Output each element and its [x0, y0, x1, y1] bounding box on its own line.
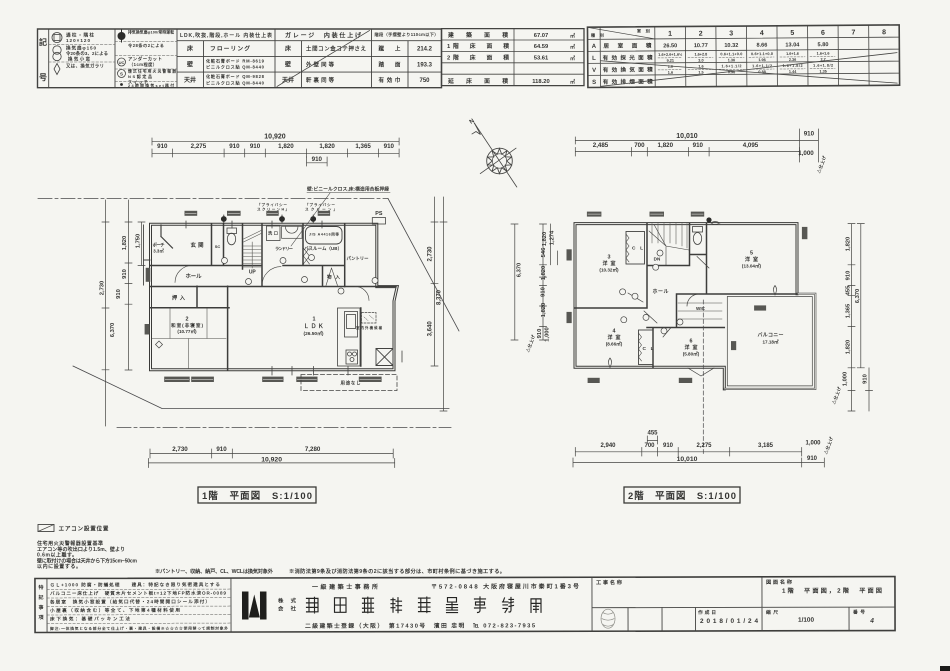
svg-text:1,365: 1,365	[355, 143, 371, 150]
svg-text:〒572-0848 大阪府寝屋川市秦町1番3号: 〒572-0848 大阪府寝屋川市秦町1番3号	[431, 582, 579, 590]
svg-text:2: 2	[447, 56, 450, 62]
svg-text:4: 4	[869, 618, 874, 625]
svg-text:1.6+2.6+1.6½: 1.6+2.6+1.6½	[658, 53, 682, 57]
1F bottom dims	[148, 449, 394, 468]
svg-text:1.44: 1.44	[789, 70, 797, 74]
svg-text:750: 750	[419, 78, 430, 84]
svg-text:項: 項	[39, 614, 45, 621]
svg-text:6,370: 6,370	[110, 323, 116, 338]
svg-text:化粧石膏ボード QM-9828: 化粧石膏ボード QM-9828	[206, 73, 265, 80]
svg-text:エアコン設置位置: エアコン設置位置	[59, 525, 109, 533]
svg-text:会社: 会社	[278, 604, 297, 612]
2F bottom dims	[573, 436, 824, 467]
svg-text:910: 910	[693, 142, 704, 149]
svg-text:1階 平面図，2階 平面図: 1階 平面図，2階 平面図	[782, 587, 882, 595]
svg-text:546: 546	[541, 247, 547, 257]
2F balcony parapet	[724, 294, 815, 389]
svg-text:2018/01/24: 2018/01/24	[700, 618, 758, 625]
svg-text:53.61: 53.61	[534, 56, 549, 62]
stamp scribble	[601, 609, 615, 628]
svg-text:事: 事	[38, 604, 43, 611]
svg-text:洋室: 洋室	[745, 256, 758, 263]
svg-text:5.80: 5.80	[818, 42, 829, 48]
1F toilet	[227, 233, 235, 245]
svg-text:※消防法第9条及び消防法第9条の2に該当する部分は、市町村条: ※消防法第9条及び消防法第9条の2に該当する部分は、市町村条例に基づき施工する。	[289, 567, 505, 575]
company name 濱田設計測量事務所 as dense glyph marks	[306, 597, 541, 613]
LEGEND-TABLE-GRID	[38, 29, 442, 88]
svg-text:3,640: 3,640	[427, 321, 433, 337]
svg-text:特: 特	[38, 584, 43, 591]
svg-text:㎡: ㎡	[570, 55, 575, 62]
svg-text:ビニルクロス貼 QM-8440: ビニルクロス貼 QM-8440	[206, 64, 265, 71]
svg-text:7,280: 7,280	[305, 446, 321, 453]
svg-text:床: 床	[187, 45, 194, 53]
svg-text:洋室: 洋室	[608, 334, 621, 341]
svg-text:土間コン金コテ押さえ: 土間コン金コテ押さえ	[306, 45, 367, 53]
page corner mark	[940, 666, 950, 671]
svg-text:910: 910	[663, 443, 674, 449]
1F entry corner + door leaf	[161, 225, 173, 248]
svg-text:2: 2	[699, 31, 703, 38]
svg-text:1,820: 1,820	[542, 232, 548, 247]
symbol col2: smoke alarm	[118, 70, 126, 78]
svg-text:ＬＤＫ: ＬＤＫ	[304, 322, 324, 330]
1F window left wall	[145, 324, 150, 335]
svg-text:5: 5	[750, 251, 753, 257]
2F windows bottom	[588, 305, 767, 383]
1F PS shaft	[372, 218, 385, 224]
svg-text:4: 4	[760, 30, 764, 37]
svg-text:洗口: 洗口	[268, 230, 278, 237]
svg-text:1,274: 1,274	[550, 230, 556, 245]
1F left-side dims	[102, 200, 145, 426]
svg-text:1.6: 1.6	[668, 65, 673, 69]
svg-text:13.04: 13.04	[785, 42, 800, 48]
1F refrigerator cross box	[376, 349, 393, 366]
svg-text:910: 910	[846, 271, 852, 281]
2F left dims	[511, 224, 558, 340]
svg-text:A: A	[592, 44, 597, 50]
svg-text:910: 910	[116, 289, 122, 299]
svg-text:小屋裏（収納含む）等全て、下地第4種材料使用: 小屋裏（収納含む）等全て、下地第4種材料使用	[50, 607, 180, 614]
ROOM-AREA-TABLE	[587, 25, 899, 88]
compass north symbol	[472, 123, 517, 187]
svg-text:17.18㎡: 17.18㎡	[762, 339, 778, 345]
svg-text:910: 910	[807, 456, 818, 462]
svg-text:㎡: ㎡	[570, 79, 575, 86]
svg-text:縮尺: 縮尺	[766, 609, 778, 616]
svg-text:1,820: 1,820	[658, 142, 674, 149]
svg-text:1,820: 1,820	[122, 236, 128, 251]
svg-text:1: 1	[313, 317, 316, 323]
svg-text:以内に設置する。: 以内に設置する。	[37, 563, 81, 570]
svg-text:番号: 番号	[852, 609, 865, 616]
symbol col2: undercut	[118, 58, 126, 66]
1F sub dim 910	[307, 157, 328, 166]
svg-text:「プライバシー: 「プライバシー	[257, 202, 287, 207]
svg-text:DN: DN	[654, 257, 661, 262]
svg-text:(26.50㎡): (26.50㎡)	[304, 330, 324, 337]
svg-text:1,750: 1,750	[136, 234, 142, 249]
svg-text:ポーチ: ポーチ	[153, 242, 166, 249]
1F circled fixture symbols	[222, 255, 379, 295]
svg-text:910: 910	[384, 143, 395, 150]
1F segment dim line	[152, 149, 399, 157]
svg-text:株式: 株式	[278, 596, 297, 604]
svg-text:△仕上げ: △仕上げ	[830, 385, 843, 406]
svg-text:外壁同等: 外壁同等	[306, 60, 335, 68]
2F interior walls	[575, 224, 797, 368]
svg-text:2,730: 2,730	[172, 446, 188, 453]
2F plan title box	[624, 487, 740, 503]
2F right dims	[848, 224, 873, 411]
svg-text:△仕上げ: △仕上げ	[815, 154, 828, 175]
1F door arcs	[262, 267, 281, 286]
svg-text:種別: 種別	[591, 32, 604, 39]
svg-text:脚注:一体換気となる部分全て仕上げ・裏・建具・設備※☆☆☆☆: 脚注:一体換気となる部分全て仕上げ・裏・建具・設備※☆☆☆☆使用禁って規制対象外	[50, 626, 228, 631]
svg-text:居 室 面 積: 居 室 面 積	[603, 41, 651, 49]
svg-text:910: 910	[157, 143, 168, 150]
svg-text:※パントリー、収納、納戸、CL、WCLは換気対象外: ※パントリー、収納、納戸、CL、WCLは換気対象外	[155, 567, 274, 575]
1F plan title box	[198, 487, 316, 503]
company logo	[242, 592, 249, 620]
AREA-TABLE	[442, 29, 585, 86]
svg-text:室内外機候補: 室内外機候補	[356, 325, 383, 330]
1F aircon dashed box	[362, 313, 377, 324]
svg-text:一級建築士事務所: 一級建築士事務所	[312, 583, 378, 591]
svg-text:1.6: 1.6	[668, 71, 673, 75]
svg-text:64.59: 64.59	[534, 44, 549, 50]
svg-text:24時間換気set器付: 24時間換気set器付	[128, 83, 174, 88]
svg-text:10,920: 10,920	[264, 134, 286, 141]
svg-text:㎡: ㎡	[570, 32, 575, 39]
svg-text:壁: 壁	[285, 60, 291, 68]
svg-text:8,370: 8,370	[437, 289, 443, 305]
svg-text:10.77: 10.77	[694, 43, 708, 49]
2F windows left/right	[567, 249, 572, 260]
svg-text:10,920: 10,920	[261, 456, 282, 463]
svg-text:3.0: 3.0	[698, 59, 703, 63]
svg-text:スクリーン」: スクリーン」	[305, 207, 337, 212]
svg-text:7: 7	[851, 29, 855, 36]
svg-text:1.6+1.1/2: 1.6+1.1/2	[721, 64, 741, 68]
svg-text:蹴 上: 蹴 上	[379, 45, 401, 53]
svg-text:1,820: 1,820	[846, 237, 852, 252]
1F storage door V marks	[326, 268, 338, 286]
svg-text:2,485: 2,485	[593, 142, 609, 149]
svg-text:1.6+1.6: 1.6+1.6	[817, 52, 830, 56]
svg-text:(13.04㎡): (13.04㎡)	[742, 262, 762, 268]
svg-text:図面名称: 図面名称	[766, 578, 793, 586]
1F window edge ticks	[186, 221, 402, 375]
svg-text:193.3: 193.3	[417, 62, 433, 68]
svg-text:階 床 面 積: 階 床 面 積	[453, 54, 509, 62]
svg-text:V: V	[592, 68, 596, 74]
svg-text:(10.77㎡): (10.77㎡)	[177, 328, 197, 334]
svg-text:PS: PS	[375, 211, 383, 217]
svg-text:S: S	[120, 72, 123, 77]
svg-text:軒裏同等: 軒裏同等	[306, 76, 335, 84]
2F outer walls	[575, 224, 797, 389]
1F bath folding door	[303, 248, 309, 264]
svg-text:1,000: 1,000	[805, 440, 821, 446]
svg-text:㎡: ㎡	[570, 44, 575, 51]
svg-text:室別: 室別	[637, 27, 650, 34]
svg-text:910: 910	[863, 374, 869, 384]
svg-text:L: L	[592, 56, 596, 62]
2F door leaves	[628, 257, 709, 338]
svg-text:6,370: 6,370	[855, 289, 861, 304]
2F stairs	[649, 224, 689, 265]
2F dashed eaves line	[702, 300, 704, 456]
svg-text:8: 8	[882, 29, 886, 36]
crossed-out S row	[601, 53, 897, 87]
svg-text:1.96: 1.96	[758, 58, 765, 62]
svg-text:踏 面: 踏 面	[379, 60, 401, 68]
svg-text:910: 910	[537, 329, 543, 339]
svg-text:2,730: 2,730	[100, 281, 106, 296]
svg-text:化粧石膏ボード RM-8619: 化粧石膏ボード RM-8619	[206, 57, 265, 64]
svg-text:3: 3	[608, 255, 611, 261]
svg-text:令28条の2による: 令28条の2による	[128, 42, 164, 49]
svg-text:910: 910	[250, 143, 261, 150]
svg-text:ガレージ 内装仕上げ: ガレージ 内装仕上げ	[285, 32, 362, 40]
svg-text:△仕上げ: △仕上げ	[524, 333, 537, 354]
symbol column dashed separators	[49, 42, 177, 82]
svg-text:1.35: 1.35	[819, 70, 826, 74]
svg-text:煙式住宅用火災警報器: 煙式住宅用火災警報器	[128, 69, 176, 74]
svg-text:1階 平面図 S:1/100: 1階 平面図 S:1/100	[202, 490, 312, 501]
svg-text:6: 6	[821, 30, 825, 37]
svg-text:1,000: 1,000	[843, 372, 849, 387]
svg-text:和室(非寝室): 和室(非寝室)	[170, 322, 203, 329]
svg-text:ホール: ホール	[653, 288, 669, 295]
svg-text:700: 700	[644, 443, 655, 449]
symbol: double circle fan	[53, 46, 61, 54]
1F outer walls	[151, 224, 398, 370]
2F balcony door V mark	[688, 368, 714, 376]
svg-text:455: 455	[647, 431, 658, 437]
svg-text:5: 5	[790, 30, 794, 37]
svg-text:2,940: 2,940	[600, 443, 616, 449]
svg-text:6,370: 6,370	[516, 263, 522, 278]
svg-text:天井: 天井	[184, 76, 196, 84]
svg-text:号: 号	[39, 73, 47, 82]
svg-text:1,820: 1,820	[278, 143, 294, 150]
svg-text:0.6+1.1+0.0: 0.6+1.1+0.0	[720, 52, 742, 56]
svg-text:1/100: 1/100	[798, 617, 814, 624]
svg-text:バスルーム（UB）: バスルーム（UB）	[304, 246, 342, 252]
svg-text:(5.80㎡): (5.80㎡)	[683, 350, 700, 356]
svg-text:8.66: 8.66	[756, 43, 767, 49]
svg-text:1,365: 1,365	[846, 303, 852, 318]
svg-text:有効換気面積: 有効換気面積	[603, 65, 653, 73]
svg-text:910: 910	[122, 269, 128, 279]
svg-text:各居室 換気小窓設置（給気口代替・24時間開口シール添付）: 各居室 換気小窓設置（給気口代替・24時間開口シール添付）	[49, 598, 210, 605]
svg-text:ＧＬ+1000 防腐・防蟻処理 建具：特記なき限り気密建具: ＧＬ+1000 防腐・防蟻処理 建具：特記なき限り気密建具とする	[50, 581, 220, 588]
svg-text:10,010: 10,010	[677, 456, 698, 463]
symbol col2: switch	[120, 83, 123, 86]
1F windows top	[185, 211, 331, 216]
1F stairs	[243, 231, 263, 269]
svg-text:910: 910	[312, 156, 323, 163]
svg-text:パントリー: パントリー	[347, 255, 370, 261]
svg-text:記: 記	[39, 37, 47, 47]
svg-text:二級建築士登録（大阪） 第17430号 濱田 忠明 ℡ 07: 二級建築士登録（大阪） 第17430号 濱田 忠明 ℡ 072-823-7935	[305, 621, 536, 630]
1F bathtub	[306, 227, 343, 245]
svg-text:1.6+2.8: 1.6+2.8	[694, 53, 707, 57]
svg-text:SC: SC	[215, 244, 221, 249]
svg-text:1,820: 1,820	[541, 266, 547, 281]
svg-text:ビニルクロス貼 QM-8440: ビニルクロス貼 QM-8440	[206, 80, 265, 87]
svg-text:118.20: 118.20	[532, 79, 549, 85]
symbol col2: exhaust fan	[118, 32, 126, 40]
svg-text:1.5: 1.5	[698, 71, 703, 75]
svg-text:S: S	[592, 80, 596, 86]
svg-text:階 床 面 積: 階 床 面 積	[453, 42, 509, 50]
svg-text:換気小窓: 換気小窓	[68, 56, 91, 63]
svg-text:2.36: 2.36	[789, 58, 796, 62]
svg-text:910: 910	[229, 143, 240, 150]
1F exhaust fan dots on top wall	[221, 216, 316, 222]
1F kitchen counter	[338, 308, 361, 366]
svg-text:フローリング: フローリング	[210, 45, 250, 53]
svg-text:階段（手摺壁より110cm以下）: 階段（手摺壁より110cm以下）	[375, 31, 439, 38]
svg-text:NS認定品: NS認定品	[128, 73, 152, 79]
svg-text:1.6+1.8/2: 1.6+1.8/2	[813, 64, 833, 68]
svg-text:4: 4	[613, 329, 616, 335]
1F tatami	[152, 309, 226, 369]
1F dashed terrace	[301, 375, 397, 391]
2F circled symbols	[620, 250, 683, 334]
svg-text:スクリーンH」: スクリーンH」	[257, 207, 289, 212]
2F toilet	[693, 233, 701, 245]
svg-text:又は、換気ガラリ: 又は、換気ガラリ	[66, 63, 104, 70]
svg-text:洋室: 洋室	[685, 344, 698, 351]
2F room4 closet	[639, 330, 654, 365]
svg-text:1,820: 1,820	[319, 143, 335, 150]
symbol: diamond	[54, 64, 60, 75]
svg-text:排気換気扇φ100/常時運転: 排気換気扇φ100/常時運転	[128, 30, 174, 35]
svg-text:700: 700	[634, 142, 645, 149]
svg-text:有効採光面積: 有効採光面積	[603, 53, 653, 61]
svg-text:LDK,吹抜,階段,ホール 内装仕上表: LDK,吹抜,階段,ホール 内装仕上表	[180, 32, 273, 39]
svg-text:3,185: 3,185	[758, 443, 774, 449]
svg-text:壁: 壁	[187, 60, 193, 68]
svg-text:10,010: 10,010	[676, 133, 698, 140]
svg-text:記: 記	[38, 594, 43, 601]
svg-text:バルコニー床仕上げ 硬質木片セメント板t=12下地FP防水済: バルコニー床仕上げ 硬質木片セメント板t=12下地FP防水済OR-0089	[50, 590, 226, 597]
1F total dim line	[152, 138, 399, 145]
2F room3 closet	[626, 232, 645, 265]
svg-text:バルコニー: バルコニー	[758, 332, 784, 339]
svg-text:1: 1	[447, 44, 451, 50]
svg-text:建 築 面 積: 建 築 面 積	[447, 31, 508, 39]
svg-text:2: 2	[186, 317, 189, 323]
svg-text:(10.32㎡): (10.32㎡)	[599, 266, 619, 272]
aircon legend	[38, 525, 54, 532]
symbol: circle-square post	[52, 33, 62, 43]
svg-text:910: 910	[804, 131, 815, 138]
svg-text:UP: UP	[249, 270, 257, 276]
svg-text:1.6+1.6: 1.6+1.6	[786, 52, 799, 56]
2F WIC shelves	[678, 303, 722, 319]
svg-text:1: 1	[668, 31, 672, 38]
site boundary lines around 1F	[38, 198, 388, 200]
svg-text:1,000: 1,000	[545, 327, 551, 342]
svg-text:壁:ビニールクロス,床:構造用合板押縁: 壁:ビニールクロス,床:構造用合板押縁	[307, 186, 389, 193]
1F interior walls	[151, 224, 397, 370]
svg-text:ランドリー: ランドリー	[275, 246, 293, 252]
notes rows	[49, 581, 227, 622]
1F windows bottom	[164, 377, 381, 382]
2F windows top	[587, 212, 704, 217]
svg-text:910: 910	[216, 446, 227, 453]
svg-text:3.3㎡: 3.3㎡	[153, 248, 164, 254]
1F wash basin counter	[282, 226, 302, 238]
svg-text:CL: CL	[632, 246, 643, 252]
svg-text:1,000: 1,000	[798, 150, 814, 157]
svg-text:有効巾: 有効巾	[379, 76, 401, 84]
svg-text:玄関: 玄関	[191, 241, 205, 249]
svg-text:1.36: 1.36	[728, 58, 735, 62]
svg-text:WIC: WIC	[696, 306, 706, 311]
svg-text:2,730: 2,730	[427, 246, 433, 262]
fire alarm notes	[36, 540, 138, 570]
svg-text:UC: UC	[119, 60, 125, 65]
svg-text:10.32: 10.32	[724, 43, 738, 49]
svg-text:6: 6	[690, 339, 693, 345]
1F right-side dims	[431, 197, 447, 411]
svg-text:120×120: 120×120	[66, 38, 90, 43]
svg-text:「プライバシー: 「プライバシー	[305, 202, 335, 207]
svg-text:3: 3	[729, 30, 733, 37]
svg-text:洋室: 洋室	[603, 260, 616, 267]
2F window swing ornaments	[609, 222, 777, 368]
1F porch	[144, 225, 151, 285]
svg-text:ホール: ホール	[186, 273, 203, 280]
svg-text:9.21: 9.21	[667, 59, 674, 63]
svg-text:2階 平面図 S:1/100: 2階 平面図 S:1/100	[628, 490, 736, 501]
svg-text:214.2: 214.2	[417, 47, 433, 53]
svg-text:910: 910	[541, 287, 547, 297]
svg-text:67.07: 67.07	[534, 33, 549, 39]
svg-text:455: 455	[846, 285, 852, 295]
svg-text:26.50: 26.50	[663, 43, 677, 49]
svg-text:用途なし: 用途なし	[341, 380, 362, 387]
svg-text:床: 床	[285, 45, 292, 53]
svg-text:JIS A4416同等: JIS A4416同等	[309, 232, 339, 237]
svg-text:4,095: 4,095	[743, 142, 759, 149]
svg-text:(8.66㎡): (8.66㎡)	[606, 340, 623, 346]
svg-text:押入: 押入	[172, 294, 186, 302]
svg-text:CL: CL	[643, 346, 654, 352]
svg-text:作成日: 作成日	[698, 609, 716, 616]
1F washing machine	[267, 226, 281, 241]
L row fractions	[658, 52, 833, 75]
svg-text:延 床 面 積: 延 床 面 積	[447, 77, 508, 85]
svg-text:（1cm程度）: （1cm程度）	[129, 61, 157, 68]
svg-text:工事名称: 工事名称	[596, 578, 623, 586]
svg-text:0.6+1.1+0.0: 0.6+1.1+0.0	[751, 52, 773, 56]
svg-text:2,275: 2,275	[191, 143, 207, 150]
svg-text:N: N	[469, 118, 476, 125]
svg-text:2,275: 2,275	[696, 443, 712, 449]
svg-text:1,820: 1,820	[846, 340, 852, 355]
svg-text:床下換気：基礎パッキン工法: 床下換気：基礎パッキン工法	[50, 615, 130, 622]
svg-text:△仕上げ: △仕上げ	[822, 435, 835, 456]
svg-text:1,820: 1,820	[541, 303, 547, 318]
